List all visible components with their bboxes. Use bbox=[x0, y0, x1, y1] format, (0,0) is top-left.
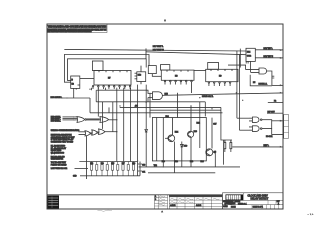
bus wire hc bbox=[96, 101, 205, 103]
pin stub to hb bbox=[191, 85, 193, 94]
wire input msyn bbox=[62, 97, 91, 99]
wire under gate loop bbox=[250, 75, 272, 86]
svg-text:DLY OUT: DLY OUT bbox=[268, 111, 275, 113]
wire ff1 stub2 bbox=[75, 88, 77, 89]
svg-text:D14: D14 bbox=[247, 52, 250, 54]
svg-text:CONNECTED PIN 7 TO GND: CONNECTED PIN 7 TO GND bbox=[51, 142, 74, 144]
delay module M1 top box bbox=[92, 61, 103, 71]
corner page mark bbox=[308, 213, 314, 215]
small box K1 bbox=[148, 66, 156, 74]
wire Q2 down bbox=[190, 137, 192, 167]
transistor area box bbox=[152, 118, 206, 161]
svg-text:DLY INT H: DLY INT H bbox=[264, 56, 274, 58]
svg-text:LAST USED R34 C31: LAST USED R34 C31 bbox=[51, 167, 68, 170]
vertical wire v6 bbox=[116, 88, 118, 162]
svg-text:REPRODUCED OR COPIED OR USED I: REPRODUCED OR COPIED OR USED IN WHOLE OR… bbox=[48, 30, 92, 33]
pencil squiggle under border bbox=[98, 210, 113, 211]
diode D1 bbox=[145, 130, 148, 133]
wire G_R inputs bbox=[246, 70, 259, 73]
wire latch out to border bbox=[272, 120, 283, 122]
svg-text:R30: R30 bbox=[162, 161, 165, 163]
gate G_M (AND) bbox=[153, 92, 163, 100]
wire feed to G_R bbox=[228, 65, 246, 70]
vertical wire v8 bbox=[130, 88, 132, 162]
notes pointer line bbox=[75, 167, 89, 169]
IC D7 long box bbox=[94, 71, 131, 86]
vertical wire v22 bbox=[89, 98, 91, 113]
gate E22a bbox=[85, 131, 90, 136]
bus wire hb to border bbox=[163, 93, 282, 95]
title block frame bbox=[223, 193, 284, 209]
wire B1 pin stubs bbox=[246, 61, 248, 63]
bus wire he bbox=[90, 112, 223, 114]
resistor R32 bbox=[230, 140, 232, 152]
OR E21a input labels bbox=[51, 116, 78, 122]
vertical wire v15 bbox=[211, 118, 213, 149]
svg-text:TP2: TP2 bbox=[154, 165, 157, 167]
wire Q1 emitter down bbox=[173, 142, 175, 173]
svg-text:9602: 9602 bbox=[247, 56, 251, 58]
wire G_R right stubs bbox=[272, 76, 274, 78]
wire loop outer bbox=[64, 55, 149, 83]
bottom bus wire h11 bbox=[148, 172, 215, 174]
wire OR E21b out long bbox=[109, 119, 117, 121]
E22a output bubble bbox=[90, 133, 91, 134]
wire Q2 top bbox=[190, 106, 192, 131]
delay module M3 top box bbox=[208, 63, 219, 70]
right edge connector J1 bbox=[284, 115, 289, 139]
NOR latch gate A bbox=[249, 117, 262, 122]
vertical wire in box v19 bbox=[162, 118, 164, 167]
vertical wire v11 bbox=[149, 93, 151, 118]
svg-text:E13: E13 bbox=[138, 74, 141, 76]
notes text block bbox=[51, 129, 80, 170]
vertical wire v2 corner bbox=[95, 90, 97, 102]
NOR latch gate B bbox=[249, 126, 262, 132]
vertical wire v10 diode branch bbox=[145, 85, 147, 129]
wire bbox=[64, 49, 246, 51]
svg-text:NONE: NONE bbox=[231, 206, 236, 208]
vertical wire v7 bbox=[123, 88, 125, 162]
transistor Q1 bbox=[168, 135, 175, 142]
wire ff1 to ic1 bbox=[80, 78, 94, 80]
IC E8 bottom pin bubbles bbox=[164, 80, 192, 84]
svg-text:OHMS 1/4W 5%: OHMS 1/4W 5% bbox=[51, 159, 64, 161]
vertical wire v16 latch feed bbox=[236, 51, 238, 119]
svg-text:INIT L: INIT L bbox=[264, 145, 270, 147]
wire G_R out bbox=[267, 71, 272, 85]
wire ff1 to input bbox=[73, 88, 75, 98]
svg-text:E2: E2 bbox=[72, 84, 74, 86]
svg-text:R32: R32 bbox=[175, 161, 178, 163]
IC D7 bottom pin bubbles bbox=[92, 86, 131, 89]
vertical wire v14 bbox=[204, 102, 206, 117]
bottom bus wire h10 bbox=[139, 166, 240, 168]
vertical wire v3 bbox=[97, 88, 99, 117]
IC E9 long box bbox=[206, 69, 238, 81]
svg-text:B: B bbox=[155, 199, 156, 201]
svg-text:UNLESS OTHERWISE INDICATED: UNLESS OTHERWISE INDICATED bbox=[51, 129, 80, 132]
wire loop inner bbox=[68, 59, 147, 81]
ladder top bus bbox=[79, 161, 137, 163]
wire v16 elbow bbox=[237, 117, 249, 119]
OR E21a output bubble bbox=[85, 119, 87, 121]
sheet border frame bbox=[47, 24, 283, 209]
svg-text:R29: R29 bbox=[132, 163, 135, 165]
title block fields bbox=[223, 201, 280, 209]
one-shot B1 bbox=[246, 48, 255, 61]
capacitor C30 bbox=[138, 162, 145, 170]
svg-text:THIS DRAWING AND SPECIFICATION: THIS DRAWING AND SPECIFICATIONS HEREIN A… bbox=[48, 25, 107, 29]
vertical wire v4b pin stub bbox=[105, 88, 107, 91]
wire v21 bbox=[223, 140, 225, 165]
resistor R31 bbox=[224, 140, 226, 152]
svg-text:E15: E15 bbox=[165, 94, 168, 96]
wire B1 bottom to G_R bbox=[250, 61, 252, 72]
svg-text:D5: D5 bbox=[253, 82, 255, 84]
gate E22a input stubs bbox=[79, 132, 86, 135]
wire bbox=[239, 49, 241, 68]
svg-text:R34: R34 bbox=[201, 161, 204, 163]
wire between IC E8 and E9 bbox=[194, 70, 206, 72]
wire Q1 base left bbox=[165, 137, 168, 139]
wire bbox=[145, 48, 147, 59]
svg-text:C27: C27 bbox=[213, 123, 216, 125]
vertical wire v13 bbox=[199, 102, 201, 148]
delay module M2 top box bbox=[161, 65, 170, 71]
wire below diode D1 bbox=[145, 132, 147, 167]
svg-text:M920-0-1: M920-0-1 bbox=[238, 203, 247, 205]
gate G_R (AND) bbox=[259, 68, 267, 74]
svg-text:DLY UNIT L: DLY UNIT L bbox=[153, 46, 164, 48]
left black stamp bbox=[48, 196, 60, 209]
wire to border DLY INT H bbox=[255, 57, 282, 59]
wire Q3 stub bbox=[213, 151, 216, 153]
transistor Q2 bbox=[188, 131, 194, 137]
wire to border DLY INT L bbox=[255, 49, 282, 51]
wire Q3 down bbox=[214, 151, 216, 168]
svg-text:C31: C31 bbox=[142, 171, 145, 173]
vertical wire v5 bbox=[112, 102, 114, 132]
vertical wire v23 bbox=[86, 136, 88, 179]
vertical wire v15b bbox=[221, 107, 232, 142]
svg-text:MSYN A L: MSYN A L bbox=[259, 83, 268, 86]
wire E22c out long bbox=[105, 131, 117, 133]
ladder bottom bus bbox=[80, 175, 140, 177]
svg-text:R27: R27 bbox=[122, 163, 125, 165]
revision table bbox=[155, 195, 168, 209]
vertical wire v1 pin stub bbox=[91, 88, 93, 91]
wire bbox=[146, 52, 246, 55]
title text bbox=[248, 194, 269, 200]
bus wire hd2 bbox=[150, 109, 221, 111]
transistor Q3 bbox=[206, 149, 213, 156]
svg-text:P2: P2 bbox=[274, 101, 276, 103]
wire to border y113 bbox=[267, 112, 283, 114]
junction dot E22c out bbox=[116, 131, 117, 132]
vertical wire v9 bbox=[137, 85, 139, 176]
vertical wire v4 bbox=[102, 102, 104, 129]
svg-text:R33: R33 bbox=[190, 161, 193, 163]
svg-text:C30: C30 bbox=[142, 164, 145, 166]
vertical wire v5b bbox=[108, 107, 110, 112]
title strip top line bbox=[47, 194, 223, 196]
svg-text:D3 CLR: D3 CLR bbox=[266, 136, 273, 138]
svg-text:DL1: DL1 bbox=[166, 116, 169, 118]
E22b output bubble bbox=[97, 132, 98, 133]
junction dots bbox=[89, 89, 243, 168]
vertical wire in box v20 bbox=[172, 118, 174, 135]
gate E22b bbox=[92, 130, 98, 135]
bus wire ha bbox=[97, 90, 153, 93]
bus wire hd bbox=[120, 106, 221, 108]
resistor ladder R21-R29 bbox=[90, 162, 134, 176]
ladder labels bbox=[90, 163, 135, 165]
svg-text:D10: D10 bbox=[184, 145, 187, 147]
marker triangle bottom bbox=[161, 210, 163, 212]
svg-text:SHEET 1 OF 1: SHEET 1 OF 1 bbox=[253, 207, 263, 209]
wire OR E21a out pair bbox=[87, 119, 100, 120]
DEC logo black box bbox=[226, 194, 244, 205]
wire to border y134.4 bbox=[272, 129, 283, 135]
svg-text:POINTS ON BOARD: POINTS ON BOARD bbox=[51, 164, 68, 167]
svg-text:R21: R21 bbox=[90, 163, 93, 165]
draftsman grid table bbox=[169, 195, 222, 209]
IC E13 vertical box bbox=[135, 66, 146, 85]
IC E9 bottom pin bubbles bbox=[208, 82, 231, 86]
wire G_M out bbox=[162, 95, 163, 97]
svg-text:R25: R25 bbox=[111, 163, 114, 165]
vertical wire v12 bbox=[177, 93, 179, 118]
flip-flop E1 bbox=[71, 76, 80, 88]
svg-text:MSYN CLK L: MSYN CLK L bbox=[202, 96, 213, 98]
svg-text:D22: D22 bbox=[197, 122, 200, 124]
notes box top-left bbox=[47, 24, 107, 33]
svg-text:DELAY DETECT: DELAY DETECT bbox=[251, 197, 269, 200]
latch cross wire bbox=[262, 120, 272, 129]
vertical wire v17 latch feed bbox=[238, 54, 240, 130]
svg-text:BUS SACK L: BUS SACK L bbox=[51, 119, 61, 122]
wire v17 elbow bbox=[239, 129, 249, 131]
wire to border y85 bbox=[272, 84, 283, 86]
svg-text:R23: R23 bbox=[101, 163, 104, 165]
bus wire hc border stub bbox=[268, 101, 283, 103]
gate E22c bbox=[99, 129, 105, 135]
OR gate E21b bbox=[100, 117, 109, 123]
svg-text:DLY INT L: DLY INT L bbox=[264, 48, 274, 50]
svg-text:4-12-71: 4-12-71 bbox=[170, 205, 175, 207]
junction dot OR2 out bbox=[116, 119, 117, 120]
diode D2 bbox=[181, 142, 184, 168]
svg-text:R24: R24 bbox=[175, 132, 178, 134]
svg-text:Q1-Q3 DEC 3009: Q1-Q3 DEC 3009 bbox=[51, 153, 64, 155]
svg-text:BUS MSYN L: BUS MSYN L bbox=[51, 97, 62, 99]
svg-text:4-16-71: 4-16-71 bbox=[196, 205, 201, 207]
OR gate E21a bbox=[77, 117, 85, 123]
svg-text:R26: R26 bbox=[194, 131, 197, 133]
wire box interior vertical bbox=[156, 118, 158, 161]
wire G_M input2 bbox=[148, 98, 153, 102]
marker triangle top bbox=[164, 20, 166, 23]
wire to border y147 bbox=[232, 146, 282, 148]
capacitor C31 bbox=[138, 170, 145, 176]
IC E8 long box bbox=[152, 70, 194, 80]
